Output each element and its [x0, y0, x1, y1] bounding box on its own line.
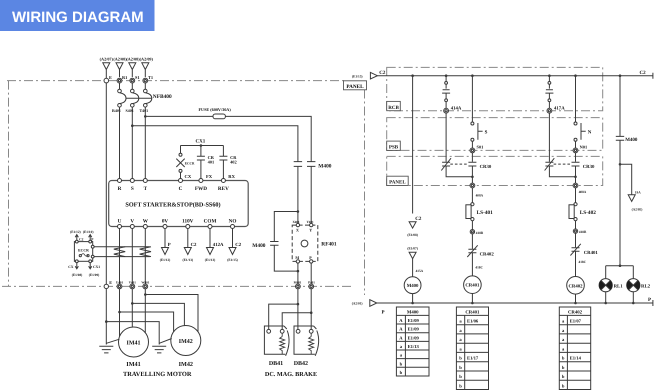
svg-text:M400: M400	[407, 310, 419, 316]
spare fuse 19A arrow	[619, 163, 643, 211]
relay coil CR402	[567, 277, 585, 305]
svg-text:b: b	[562, 365, 565, 370]
svg-text:ECCR: ECCR	[78, 248, 89, 252]
svg-text:V401: V401	[129, 281, 136, 285]
terminal table CR402	[559, 307, 590, 390]
terminal 418B right	[573, 229, 587, 247]
svg-text:(E1/13): (E1/13)	[183, 258, 194, 262]
lamp RL1	[599, 279, 623, 305]
wires R S T to breaker	[120, 83, 146, 89]
arrow 110V C2	[183, 229, 198, 262]
incoming arrows E R1 S1 T1	[103, 63, 110, 79]
svg-text:COM: COM	[204, 218, 217, 224]
motor labels	[123, 361, 193, 378]
svg-text:415A: 415A	[416, 269, 424, 273]
incoming terminal labels A2/07..A2/09	[100, 57, 154, 62]
branch6 M400 capacitor right	[616, 74, 638, 265]
svg-text:P401: P401	[308, 281, 315, 285]
wire CX1 rail	[181, 145, 224, 147]
svg-text:PANEL: PANEL	[389, 180, 406, 186]
wire S tap line	[132, 126, 298, 162]
svg-text:M400: M400	[407, 283, 419, 289]
svg-text:CR401: CR401	[465, 310, 480, 316]
svg-text:CR402: CR402	[568, 283, 583, 289]
svg-text:(E1/07): (E1/07)	[407, 246, 418, 250]
svg-text:E1/09: E1/09	[408, 335, 420, 340]
svg-text:b: b	[400, 361, 403, 366]
relay coil M400	[404, 277, 421, 305]
svg-text:C2: C2	[640, 70, 647, 76]
ground bond IM42	[159, 339, 172, 344]
svg-text:Y401: Y401	[307, 220, 314, 224]
svg-text:IM42: IM42	[179, 361, 193, 368]
ground IM41	[99, 346, 113, 353]
branch1b E1/07 to M400 coil	[407, 246, 423, 276]
svg-text:FUSE (600V/30A): FUSE (600V/30A)	[199, 107, 232, 112]
svg-text:(E1/12): (E1/12)	[70, 230, 81, 234]
svg-text:U401: U401	[116, 281, 123, 285]
svg-text:REV: REV	[218, 186, 229, 192]
branch1 C2 to E1/08	[407, 74, 422, 237]
svg-text:418C: 418C	[475, 266, 483, 270]
svg-text:414A: 414A	[451, 105, 462, 111]
svg-text:TRAVELLING MOTOR: TRAVELLING MOTOR	[123, 371, 192, 378]
brake labels	[265, 361, 317, 378]
svg-text:E1/06: E1/06	[467, 319, 479, 324]
svg-text:RX: RX	[228, 174, 235, 179]
svg-text:LS-402: LS-402	[580, 210, 597, 216]
svg-text:P: P	[648, 297, 651, 303]
ECCR current sensor	[68, 230, 100, 277]
RCB label	[387, 101, 401, 110]
wire fuse line	[145, 116, 311, 161]
wire P bus	[377, 300, 653, 306]
capacitor M400 pair	[294, 162, 332, 225]
svg-text:FWD: FWD	[195, 186, 207, 192]
box top terminals R S T C FWD REV	[118, 179, 230, 192]
svg-text:408A: 408A	[476, 193, 484, 197]
svg-text:S1: S1	[135, 75, 140, 80]
PANEL label	[387, 176, 409, 185]
PANEL label left	[344, 81, 367, 90]
svg-text:b: b	[459, 356, 462, 361]
wire M401 to brakes	[269, 289, 298, 332]
RIGHT-SECTION	[352, 67, 653, 389]
svg-text:C2: C2	[79, 238, 84, 242]
svg-text:X401: X401	[293, 220, 300, 224]
svg-text:C2: C2	[191, 242, 197, 248]
svg-text:(A2/01): (A2/01)	[352, 302, 363, 306]
contact CR30 b (left)	[441, 158, 472, 177]
svg-text:E1/09: E1/09	[408, 318, 420, 323]
lamp feed	[606, 264, 634, 278]
svg-text:418B: 418B	[476, 231, 484, 235]
svg-text:(A2/05): (A2/05)	[632, 207, 643, 211]
CT zigzag on U	[114, 247, 125, 257]
contact CR401 b	[570, 244, 598, 277]
terminal 408A left	[470, 183, 484, 203]
svg-text:DB42: DB42	[294, 361, 308, 367]
soft starter box BD-SS60	[109, 181, 249, 227]
svg-text:(A2/08): (A2/08)	[113, 57, 127, 62]
svg-text:IM41: IM41	[127, 340, 141, 346]
wire W tap to IM42	[144, 293, 147, 296]
arrow 0V P	[160, 229, 171, 262]
svg-text:P: P	[168, 242, 171, 248]
node S tap	[131, 124, 134, 127]
svg-text:LS-401: LS-401	[477, 210, 494, 216]
CT zigzag on W	[140, 247, 151, 257]
svg-text:N: N	[588, 130, 592, 136]
svg-text:E: E	[109, 75, 112, 80]
svg-text:S01: S01	[477, 144, 484, 149]
noise filter RF401	[292, 220, 337, 263]
svg-text:b: b	[562, 383, 565, 388]
svg-text:b: b	[459, 365, 462, 370]
svg-text:E1/13: E1/13	[408, 344, 420, 349]
wire E tap to IM42 ground	[105, 320, 108, 323]
svg-text:0V: 0V	[162, 218, 169, 224]
wires RF401 to panel terminals	[298, 263, 311, 284]
svg-text:(E1/12): (E1/12)	[160, 258, 171, 262]
ground bond IM41	[106, 339, 119, 343]
terminal 408A right	[573, 183, 587, 203]
box RCB dash-dot	[387, 67, 603, 110]
svg-text:CX: CX	[68, 265, 74, 269]
svg-text:418C: 418C	[579, 260, 587, 264]
box bottom terminals U V W 0V 110V COM NO	[118, 218, 237, 228]
contact ECCR (CX branch)	[176, 146, 195, 180]
title banner	[0, 0, 155, 31]
svg-text:M400: M400	[625, 137, 638, 143]
panel terminals M401 P401	[294, 281, 316, 289]
breaker NFB400	[112, 89, 172, 113]
svg-text:T: T	[144, 186, 148, 192]
svg-text:(E1/13): (E1/13)	[205, 258, 216, 262]
wire CT line upper	[94, 246, 150, 248]
svg-text:PSB: PSB	[389, 145, 399, 151]
contact CR30 a (right)	[468, 162, 492, 183]
fuse FUSE 600V/30A	[213, 114, 225, 119]
svg-text:RL1: RL1	[614, 283, 624, 289]
motor IM42	[171, 326, 201, 356]
svg-text:E1/09: E1/09	[408, 327, 420, 332]
wire V tap to IM42	[131, 302, 134, 305]
P bus arrow	[352, 300, 385, 316]
svg-text:IM41: IM41	[126, 361, 140, 368]
svg-text:T401: T401	[140, 108, 149, 113]
svg-text:412A: 412A	[213, 242, 224, 248]
box PSB dash-dot	[387, 118, 603, 151]
svg-text:RF401: RF401	[321, 241, 337, 247]
svg-text:X: X	[296, 228, 299, 233]
svg-text:DB41: DB41	[269, 361, 283, 367]
svg-text:W: W	[143, 218, 149, 224]
box PANEL dash-dot	[387, 156, 603, 185]
svg-text:M400: M400	[252, 243, 265, 249]
svg-text:M: M	[295, 255, 299, 260]
svg-text:(E1/10): (E1/10)	[83, 230, 94, 234]
svg-text:(E1/15): (E1/15)	[227, 258, 238, 262]
svg-text:(E1/09): (E1/09)	[89, 273, 100, 277]
lamp RL2	[627, 279, 651, 305]
svg-text:U: U	[118, 218, 122, 224]
svg-text:C2: C2	[235, 242, 241, 248]
contact CR401 (FX branch)	[197, 146, 215, 180]
svg-text:417A: 417A	[554, 105, 565, 111]
svg-text:(E1/08): (E1/08)	[72, 273, 83, 277]
motor IM41	[119, 327, 149, 357]
svg-text:W401: W401	[141, 281, 149, 285]
wire CT line lower	[94, 256, 150, 258]
svg-text:R1: R1	[122, 75, 127, 80]
limit switch LS-402	[569, 203, 596, 229]
svg-text:(A2/07): (A2/07)	[100, 57, 114, 62]
wire E down full	[105, 83, 107, 345]
svg-text:PANEL: PANEL	[346, 84, 364, 90]
svg-text:b: b	[459, 383, 462, 388]
branch2 414A	[442, 74, 462, 161]
svg-text:b: b	[562, 374, 565, 379]
branch4 417A	[545, 74, 565, 161]
arrow COM 412A	[205, 229, 224, 262]
branch5 N N01	[573, 74, 592, 161]
svg-text:WIRING DIAGRAM: WIRING DIAGRAM	[12, 9, 144, 26]
wire P401 to brakes	[282, 289, 311, 332]
svg-text:110V: 110V	[182, 218, 193, 224]
contact CR402 (RX branch)	[219, 146, 237, 180]
svg-text:NO: NO	[229, 218, 237, 224]
svg-text:E1/14: E1/14	[570, 356, 582, 361]
svg-text:FX: FX	[206, 174, 213, 179]
wires breaker to starter box	[120, 107, 146, 178]
contact CR402 b	[467, 245, 494, 276]
svg-text:V: V	[130, 218, 134, 224]
svg-text:ECCR: ECCR	[185, 161, 195, 165]
wires U V W down	[120, 229, 146, 337]
svg-text:418B: 418B	[579, 230, 587, 234]
svg-text:IM42: IM42	[179, 339, 193, 345]
svg-text:C: C	[179, 186, 183, 192]
contact CR30 b (N left)	[545, 158, 576, 177]
branch3 S S01	[470, 74, 488, 161]
svg-text:CR402: CR402	[568, 310, 583, 316]
panel boundary top dash-dot	[2, 81, 365, 295]
svg-text:M401: M401	[294, 281, 302, 285]
svg-text:b: b	[400, 370, 403, 375]
node T fuse tap	[144, 115, 147, 118]
svg-text:SOFT STARTER&STOP(BD-SS60): SOFT STARTER&STOP(BD-SS60)	[125, 202, 220, 209]
svg-text:CX1: CX1	[196, 139, 206, 145]
svg-text:19A: 19A	[635, 190, 641, 194]
svg-text:CR30: CR30	[480, 164, 492, 170]
capacitor M400 third	[252, 210, 299, 272]
terminal R1	[117, 78, 122, 83]
svg-text:E: E	[109, 280, 112, 285]
svg-text:b: b	[459, 374, 462, 379]
svg-text:M400: M400	[318, 164, 331, 170]
svg-text:(A2/08): (A2/08)	[126, 57, 140, 62]
svg-text:E1/17: E1/17	[467, 356, 479, 361]
svg-text:P: P	[382, 310, 385, 316]
svg-text:Y: Y	[309, 228, 312, 233]
svg-text:S: S	[485, 130, 488, 136]
arrow NO C2	[227, 229, 242, 262]
svg-text:NFB400: NFB400	[153, 94, 172, 100]
svg-text:CX1: CX1	[93, 265, 100, 269]
svg-text:408A: 408A	[579, 190, 587, 194]
svg-text:CR401: CR401	[584, 250, 599, 256]
svg-text:CR401: CR401	[465, 283, 480, 289]
svg-text:E1/07: E1/07	[570, 319, 582, 324]
terminal T1	[143, 78, 148, 83]
terminal 418B left	[470, 230, 484, 249]
terminal E	[104, 78, 109, 83]
svg-text:(A2/09): (A2/09)	[140, 57, 154, 62]
svg-text:CX: CX	[185, 174, 192, 179]
svg-text:R: R	[118, 186, 122, 192]
brake DB42	[294, 326, 319, 356]
C2 feed arrow	[352, 70, 386, 79]
svg-text:T1: T1	[148, 75, 153, 80]
svg-text:402: 402	[230, 159, 237, 164]
limit switch LS-401	[466, 203, 493, 230]
panel terminals E U401 V401 W401	[104, 280, 150, 289]
relay coil CR401	[464, 276, 482, 304]
svg-text:RL2: RL2	[641, 283, 651, 289]
svg-text:S: S	[131, 186, 134, 192]
svg-text:(E1/08): (E1/08)	[407, 233, 418, 237]
svg-text:(E1/15): (E1/15)	[352, 74, 363, 78]
ground IM42	[152, 346, 166, 353]
svg-text:RCB: RCB	[388, 105, 399, 111]
svg-text:401: 401	[208, 159, 215, 164]
svg-text:C2: C2	[415, 216, 422, 222]
PSB label	[387, 141, 401, 150]
svg-text:b: b	[562, 356, 565, 361]
terminal table M400	[396, 307, 429, 376]
terminal S1	[130, 78, 135, 83]
brake DB41	[264, 326, 289, 356]
svg-text:CR402: CR402	[480, 251, 495, 257]
terminal table CR401	[456, 307, 488, 390]
svg-text:DC. MAG. BRAKE: DC. MAG. BRAKE	[265, 371, 317, 378]
svg-text:N01: N01	[580, 144, 588, 149]
wire U tap to IM42	[118, 311, 121, 314]
svg-text:CR30: CR30	[583, 164, 595, 170]
contact CR30 a (N right)	[572, 162, 596, 183]
wire C2 bus	[377, 73, 653, 79]
